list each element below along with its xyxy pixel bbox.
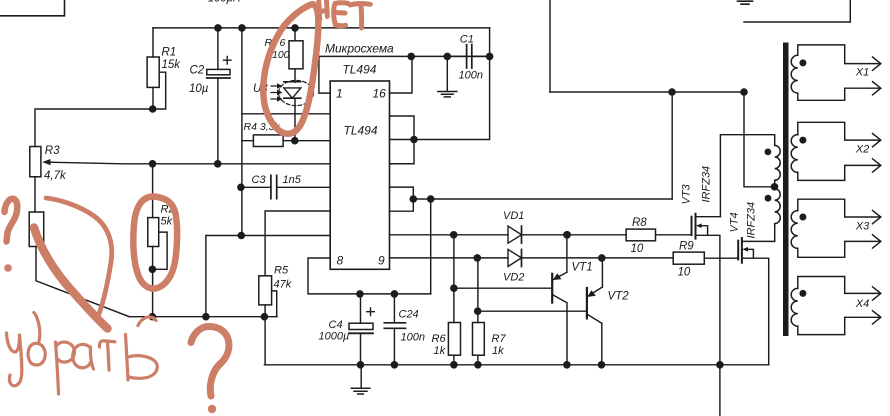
wire: riser x=430.7 [430,199,432,294]
label R8 10 [631,217,648,255]
svg-text:C1: C1 [460,34,474,46]
svg-text:100: 100 [272,49,290,61]
secondary winding X2 [791,122,881,180]
phase dot W1 [765,149,772,156]
svg-text:C2: C2 [190,65,205,77]
junction dot C3 left [237,184,245,192]
svg-text:1n5: 1n5 [283,174,302,186]
junction dot R4 out / LED [291,137,299,145]
wire: pin 8 path under IC [308,258,431,294]
resistor R1 [147,28,166,109]
label X1 [855,67,869,79]
ground symbol below C4 [351,365,370,394]
svg-text:R1: R1 [162,47,177,59]
svg-text:6: 6 [280,37,286,49]
annotation: question mark left [5,199,18,242]
svg-text:TL494: TL494 [344,124,378,138]
svg-text:X1: X1 [855,67,869,79]
IC U1 TL494 box [330,81,389,269]
svg-text:1000µ: 1000µ [319,331,350,343]
annotation: dot below right question mark [208,405,216,413]
svg-text:10: 10 [631,243,644,255]
annotation: dot below left question mark [4,264,12,272]
svg-text:C4: C4 [329,319,343,331]
transformer primary winding W2 [775,189,781,224]
label VD2 [503,272,524,284]
annotation: word НЕТ [319,0,371,28]
label TL494 (upper) [342,63,376,77]
svg-text:X4: X4 [855,298,869,310]
label VT2 [608,291,630,303]
svg-text:Микросхема: Микросхема [325,42,394,56]
svg-text:10: 10 [678,267,691,279]
junction dot bus top [238,24,246,32]
wire: IC left pin stub y=115 [242,113,330,115]
wire: top supply rail [153,27,490,29]
svg-text:100µH: 100µH [208,0,241,5]
svg-text:1: 1 [336,87,343,101]
junction dots on frame top [407,53,415,61]
wire: VT3 drain riser to winding W1 top [720,135,774,217]
wire: W2 bottom to VT4 drain [774,224,776,242]
wire: bottom-left horizontal net [129,316,277,318]
wire: VD2 to R9 [522,257,674,259]
resistor R6 (1k) [448,235,460,365]
cropped box top-left [0,0,65,16]
annotation: letter т [99,341,115,347]
wire: supply drop to center tap [744,92,775,189]
wire: top-right loop [744,0,850,22]
secondary winding X1 [791,45,881,100]
svg-text:X3: X3 [855,221,870,233]
pin label 1 [336,87,343,101]
svg-text:15k: 15k [162,59,182,71]
svg-text:C3: C3 [252,174,267,186]
secondary winding X4 [791,277,881,335]
svg-text:IRFZ34: IRFZ34 [746,202,758,239]
capacitor C1 (100n) [447,45,489,68]
svg-text:VT2: VT2 [608,291,630,303]
wire: R3 to lower resistor [34,177,36,212]
phase dot W2 [765,195,772,202]
junction dot R2 bottom [149,266,157,274]
svg-text:VD1: VD1 [503,210,524,222]
label U3 [253,83,268,95]
diode VD2 [508,249,522,266]
label R3 4,7k [44,145,67,182]
junction dot bus crossing [238,232,246,240]
annotation: question mark right [191,326,229,396]
potentiometer R3 [30,147,330,177]
resistor R16 (100) top [289,28,303,82]
resistor R9 (10) [673,252,738,264]
label C24 100n [399,309,425,344]
capacitor C4 (1000u electrolytic) [349,294,374,365]
label C1 100n [459,34,483,82]
pin label 8 [337,254,344,268]
wire: top-right block left edge [549,0,551,92]
wire: VD1 to R8 node [522,234,627,236]
wire: pin16 to top node [390,56,413,93]
svg-text:10µ: 10µ [189,83,209,95]
svg-text:VT3: VT3 [681,183,693,204]
annotation: oval around R16/U3 [263,4,318,134]
svg-text:X2: X2 [855,144,869,156]
wire: feedback to C1-right node [414,56,490,139]
resistor (unlabeled) below R3 [29,212,44,247]
resistor R7 (1k) [473,258,485,365]
label R6 1k [432,333,447,357]
svg-text:1k: 1k [492,345,504,357]
resistor R4 (3,3k) [242,135,330,147]
svg-text:VD2: VD2 [503,272,524,284]
wire: top rail drop to C1 node [489,28,491,57]
U3 light arrows [271,83,283,101]
annotation: thick stroke S0 [34,228,108,329]
svg-text:R9: R9 [679,241,694,253]
junction dot supply/output riser [668,88,676,96]
svg-text:100n: 100n [401,332,425,344]
junction dot VT2 emitter top [598,254,606,262]
outer frame Микросхема TL494 [319,56,490,93]
junction dot VT1 emitter top [563,231,571,239]
secondary winding X3 [791,199,881,257]
annotation: swash over ь [138,317,156,326]
junction dots output rail [410,195,418,203]
junction dot VT2 base wire tap [474,307,482,315]
junction dot R6 top [450,231,458,239]
svg-text:R7: R7 [492,333,507,345]
annotation: letter р [56,342,59,394]
svg-text:100n: 100n [459,70,483,82]
svg-text:R6: R6 [432,333,447,345]
phase dot X1 [799,59,806,66]
junction dot R5 bottom [261,313,269,321]
junction dot R8 left [563,231,571,239]
resistor R5 (47k) [259,276,277,365]
label X4 [855,298,869,310]
MOSFET VT4 IRFZ34 [738,238,775,365]
svg-text:4,7k: 4,7k [44,170,67,182]
wire: right pins y186/y210 riser [390,187,414,211]
junction dots pin8 wire [356,290,364,298]
wire: pin 9 to VD2 [390,257,509,259]
wire: supply rail y=92 [550,91,744,93]
label X2 [855,144,869,156]
wire: lower resistor to bottom node (diagonal) [36,247,129,317]
phase dot X2 [799,137,806,144]
ground stub top right (cropped) [738,1,753,4]
annotation: letter а [73,344,91,367]
phase dot X3 [799,214,806,221]
wire: output rail y=198.5 [413,198,672,200]
resistor R2 (5k) [148,164,167,317]
capacitor C24 (100n) [384,294,405,365]
cropped inductor label 100uH (top edge) [208,0,241,5]
resistor R8 (10) [626,229,691,241]
pin label 16 [373,87,387,101]
ground at C1 [438,56,457,97]
wire: riser x=206 to IC pin wire [206,236,330,317]
annotation: letter ь [126,335,129,381]
svg-text:R5: R5 [274,265,289,277]
junction dot [149,105,157,113]
junction dot C2 bottom [214,160,222,168]
wire: IC pin to VD1 [390,234,509,236]
label VT1 [572,262,593,274]
ground rail bottom [264,364,768,366]
label C3 1n5 [252,174,302,186]
optocoupler U3 LED [279,80,314,140]
svg-text:R8: R8 [632,217,647,229]
junction dot R2 top [149,160,157,168]
svg-text:16: 16 [373,87,387,101]
transformer primary winding W1 [775,145,781,180]
transistor VT2 [478,258,603,365]
label R16 100 [265,37,290,61]
label R9 10 [678,241,695,279]
junction dot riser bottom [202,313,210,321]
wire: R1 bottom node to R3 [35,109,153,147]
diode VD1 [508,226,522,243]
transistor VT1 [454,235,567,365]
junction dot supply/transformer [740,88,748,96]
annotation: letter б [28,343,45,365]
capacitor C3 (1n5) [242,175,330,198]
pin label 9 [378,254,385,268]
label R5 47k [274,265,292,291]
junction dot center tap [771,183,779,191]
svg-text:TL494: TL494 [342,63,376,77]
MOSFET VT3 IRFZ34 [692,214,721,365]
svg-text:VT1: VT1 [572,262,593,274]
wire: IC left pin y=211 / R5 top [265,211,330,276]
label C4 1000u [319,319,350,343]
label R2 5k [161,204,175,228]
label Микросхема [325,42,394,56]
annotation: letter у [7,313,158,395]
svg-text:C24: C24 [399,309,419,321]
label VD1 [503,210,524,222]
wire: right pins bus x=414 [390,116,415,164]
junction dot bottom-left net [149,313,157,321]
annotation: curve stroke S1 [46,198,112,314]
svg-text:IRFZ34: IRFZ34 [701,166,713,203]
label X3 [855,221,870,233]
wire: riser x=672 to output rail [671,92,673,199]
transformer T1 core [783,43,789,337]
wire: rail to bottom edge [719,365,721,416]
svg-text:R3: R3 [45,145,60,157]
label TL494 (inner) [344,124,378,138]
capacitor C2 (electrolytic) [207,28,231,164]
label VT3 IRFZ34 [681,166,713,205]
label R7 1k [492,333,507,357]
wire: vertical bus from top rail [241,28,243,236]
junction dot R16 top [291,24,299,32]
label R4 3,3k [244,121,281,133]
label R1 15k [162,47,182,71]
svg-text:VT4: VT4 [729,212,741,232]
junction dot R7 top [474,254,482,262]
svg-text:9: 9 [378,254,385,268]
svg-text:8: 8 [337,254,344,268]
label VT4 IRFZ34 [729,202,758,239]
label C2 10u [189,65,209,96]
annotation: oval around R2 [133,196,177,288]
svg-text:5k: 5k [161,216,173,228]
junction dot C2 top [214,24,222,32]
junction dot feedback [410,136,418,144]
phase dot X4 [799,290,806,297]
junction dots ground rail [357,361,365,369]
junction dot VT1 base tap [450,284,458,292]
svg-text:47k: 47k [274,279,292,291]
svg-text:1k: 1k [434,345,446,357]
